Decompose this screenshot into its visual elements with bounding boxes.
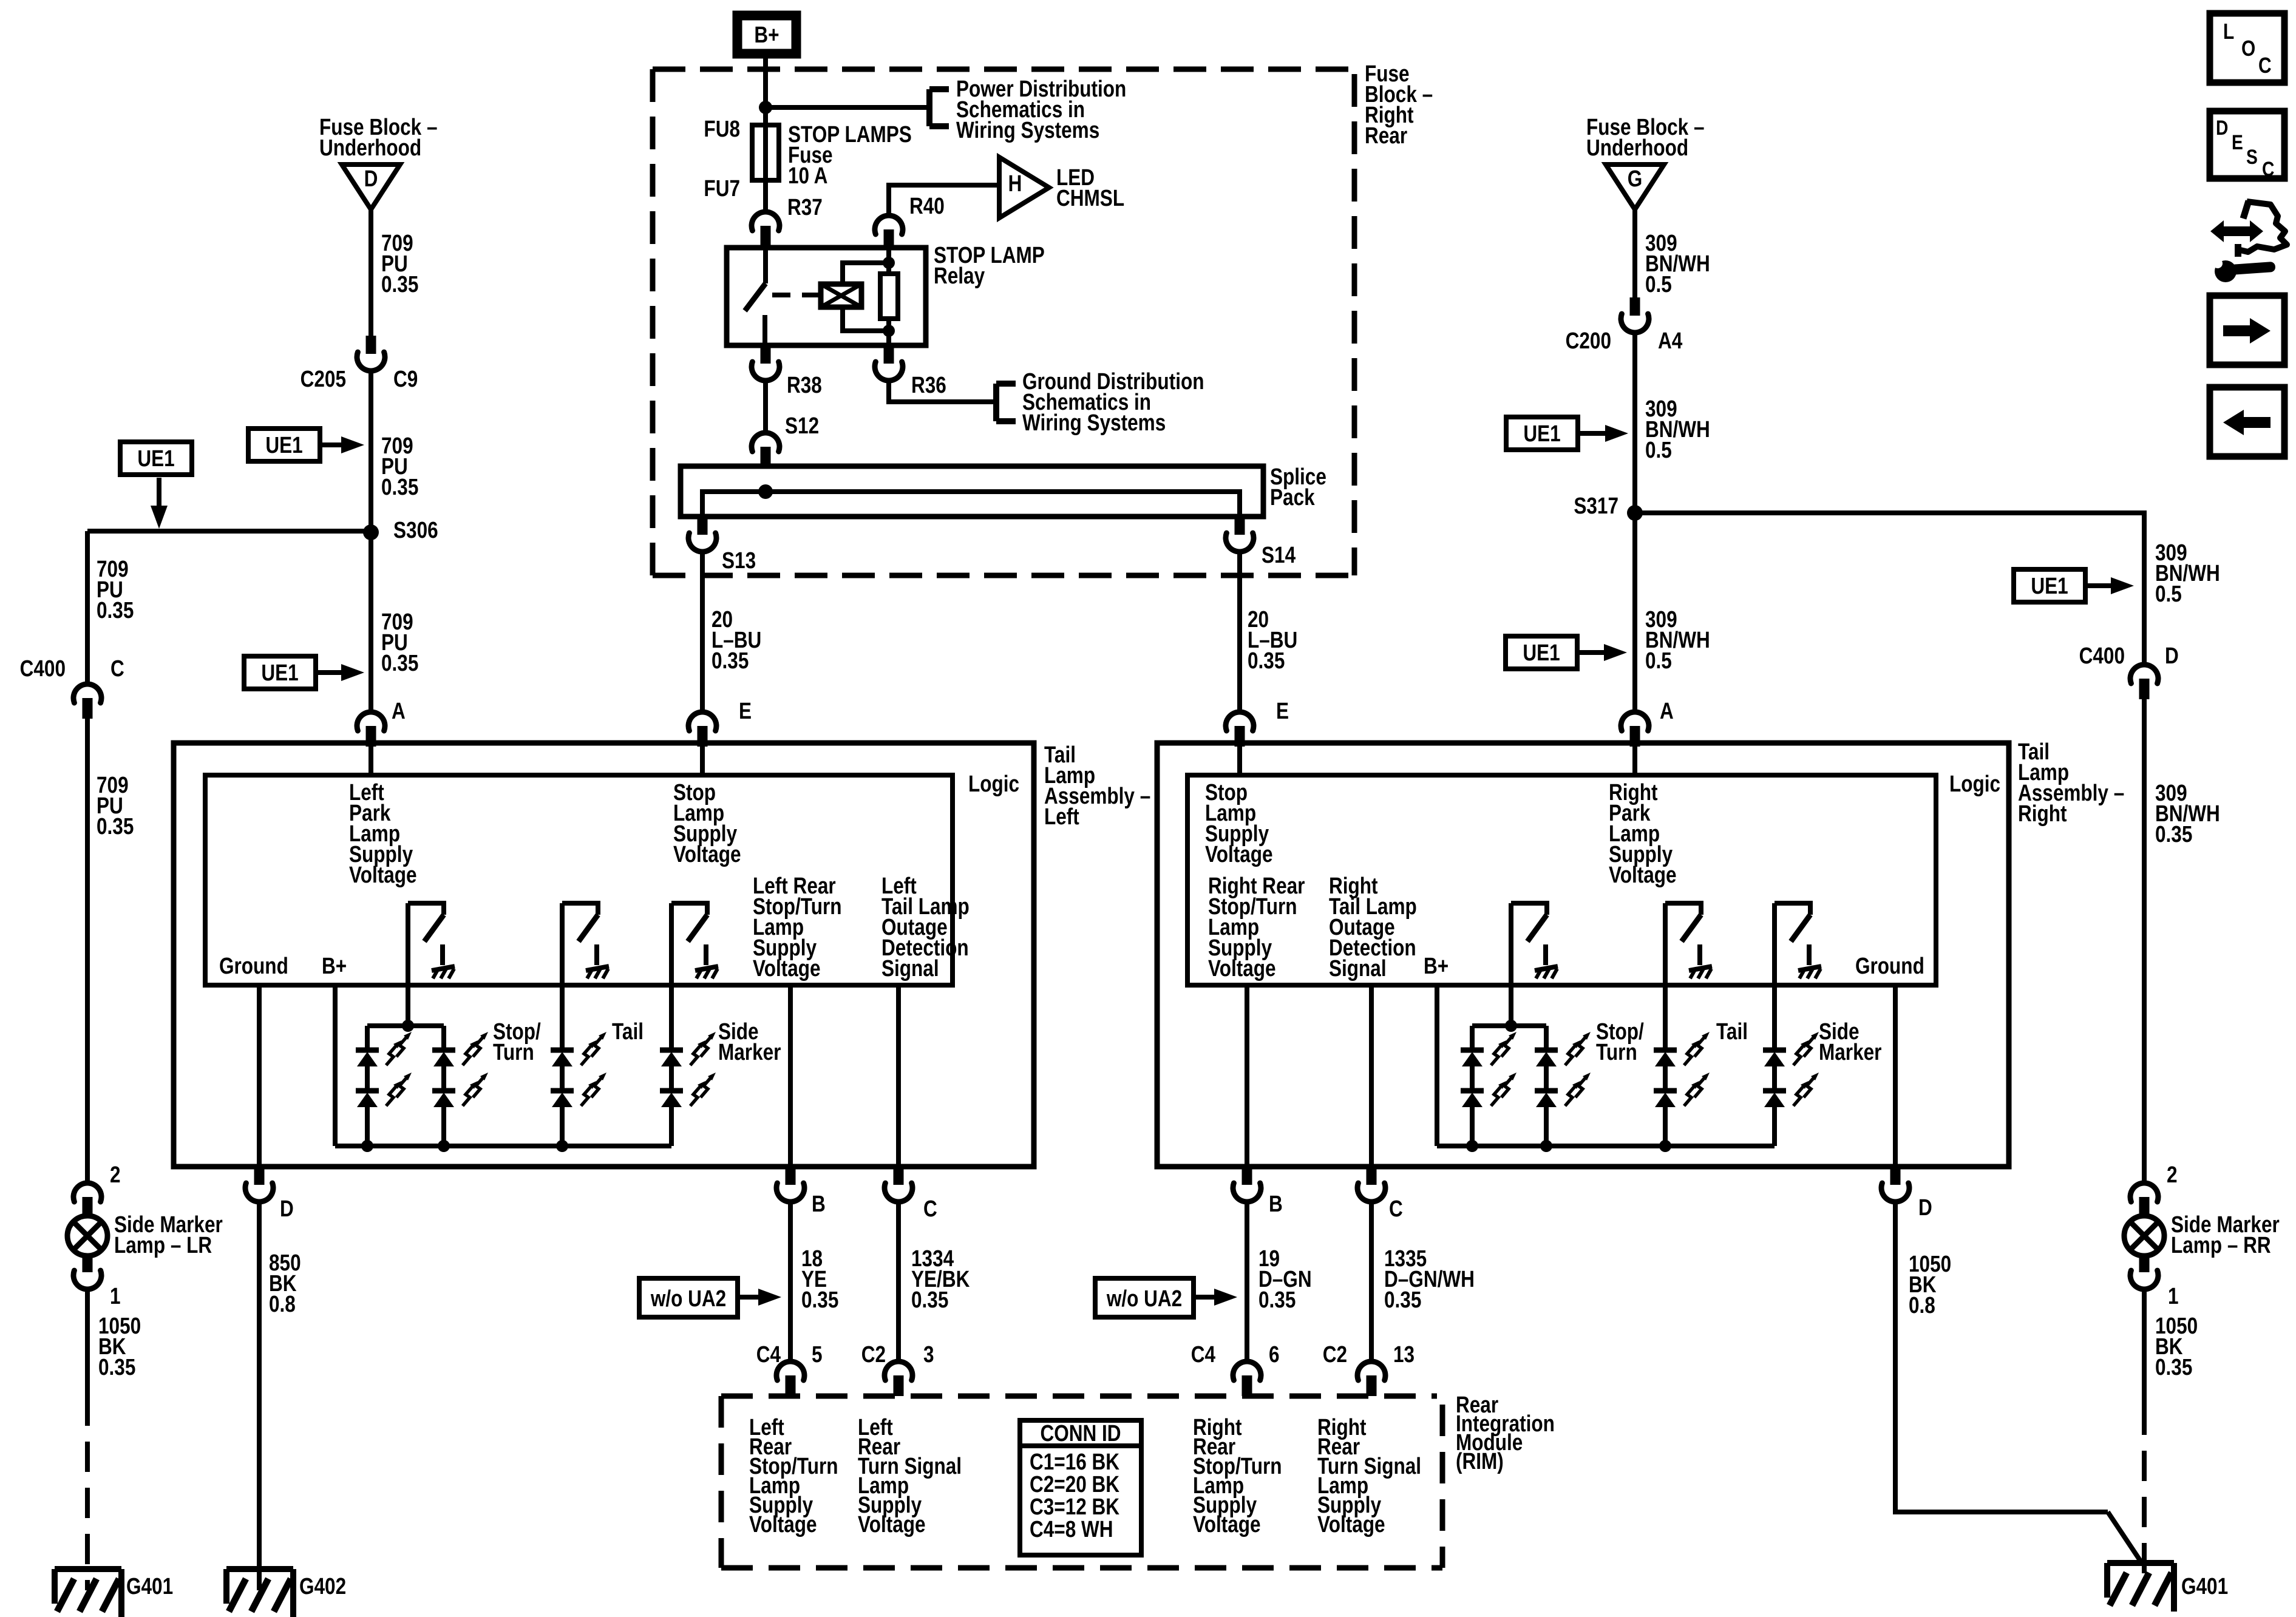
connector pin R38 xyxy=(761,345,771,364)
svg-text:S: S xyxy=(2246,146,2258,169)
arrow UE1 far right xyxy=(2085,583,2116,588)
svg-text:R37: R37 xyxy=(787,194,823,220)
wire R38 to S12 xyxy=(763,381,768,432)
svg-text:CHMSL: CHMSL xyxy=(1056,185,1124,211)
svg-text:R38: R38 xyxy=(787,372,822,398)
svg-text:S14: S14 xyxy=(1262,542,1296,568)
svg-text:D: D xyxy=(1918,1195,1932,1220)
wire B+ to fuse FU8 xyxy=(763,58,768,125)
svg-text:Ground: Ground xyxy=(1855,953,1924,978)
svg-text:C4: C4 xyxy=(756,1341,781,1367)
LED tail left 2 xyxy=(551,1088,574,1094)
LED bottom rail right xyxy=(1437,1144,1775,1148)
wire S14 to connector E right xyxy=(1237,552,1242,711)
wire switch2 left xyxy=(560,903,565,1050)
LED stop/turn left A1 xyxy=(356,1048,379,1053)
svg-text:C2: C2 xyxy=(861,1341,886,1367)
svg-text:Rear: Rear xyxy=(1365,123,1407,148)
wire led stringB left xyxy=(441,1066,446,1091)
LED side marker right 1 xyxy=(1763,1048,1786,1053)
svg-text:0.35: 0.35 xyxy=(381,474,418,500)
svg-text:G401: G401 xyxy=(126,1573,173,1599)
svg-text:B+: B+ xyxy=(754,22,779,47)
svg-text:Lamp – RR: Lamp – RR xyxy=(2171,1232,2271,1258)
svg-text:C: C xyxy=(1389,1196,1403,1221)
junction dot S306 xyxy=(363,524,379,540)
icon hand double arrow xyxy=(2210,220,2263,242)
svg-text:Voltage: Voltage xyxy=(749,1511,817,1537)
bracket ground distribution xyxy=(993,384,999,421)
option box UE1 right upper xyxy=(1506,417,1578,450)
wire pin A into logic left xyxy=(369,747,373,775)
svg-text:G: G xyxy=(1628,166,1643,191)
svg-text:0.35: 0.35 xyxy=(97,813,134,839)
svg-text:Voltage: Voltage xyxy=(1317,1511,1385,1537)
tail lamp assembly left outer box xyxy=(174,743,1034,1167)
buffer triangle H LED CHMSL xyxy=(999,157,1049,218)
svg-text:L: L xyxy=(2223,19,2234,44)
svg-text:Voltage: Voltage xyxy=(1208,955,1276,981)
svg-text:C: C xyxy=(923,1196,937,1221)
svg-text:(RIM): (RIM) xyxy=(1456,1448,1504,1474)
LED stop/turn right B1 xyxy=(1535,1048,1558,1053)
svg-text:UE1: UE1 xyxy=(261,660,298,685)
svg-text:Wiring Systems: Wiring Systems xyxy=(1022,410,1166,435)
option box UE1 at A left xyxy=(244,656,316,689)
LED side marker right 2 xyxy=(1763,1088,1786,1094)
wire C400 D to side marker RR xyxy=(2142,699,2147,1182)
wire B right to RIM xyxy=(1245,1202,1249,1360)
connector RIM C4-6 xyxy=(1233,1361,1261,1380)
svg-text:UE1: UE1 xyxy=(1523,640,1560,665)
option box UE1 far right xyxy=(2014,569,2085,602)
svg-text:1: 1 xyxy=(2168,1283,2179,1309)
svg-text:D: D xyxy=(2216,117,2228,140)
connector pin R40 xyxy=(875,215,903,234)
svg-text:w/o UA2: w/o UA2 xyxy=(650,1286,726,1311)
svg-text:O: O xyxy=(2241,36,2255,61)
wire pin B right xyxy=(1245,985,1249,1167)
connector pin A right assembly xyxy=(1621,712,1649,731)
svg-text:B+: B+ xyxy=(322,953,347,978)
bulb side marker lamp RR xyxy=(2124,1216,2164,1256)
svg-text:S306: S306 xyxy=(393,517,438,543)
relay actuator dashed link xyxy=(772,293,821,297)
svg-text:Tail: Tail xyxy=(1716,1019,1748,1044)
svg-text:Voltage: Voltage xyxy=(753,955,821,981)
svg-text:E: E xyxy=(1276,698,1289,724)
arrow UE1 to wire A left xyxy=(316,670,346,675)
svg-text:Underhood: Underhood xyxy=(1586,135,1688,160)
svg-text:0.35: 0.35 xyxy=(98,1354,135,1380)
connector C400 C xyxy=(73,684,101,703)
svg-text:CONN ID: CONN ID xyxy=(1040,1420,1121,1446)
driver switch side marker left xyxy=(671,903,707,915)
svg-text:Ground: Ground xyxy=(219,953,288,978)
wire fuse to R37 xyxy=(763,180,768,211)
connector pin D right assembly xyxy=(1890,1167,1901,1185)
connector RIM C2-3 xyxy=(885,1361,912,1380)
svg-text:0.35: 0.35 xyxy=(801,1287,838,1312)
connector C205/C9 xyxy=(366,336,376,354)
wire ground pin D right xyxy=(1893,985,1898,1167)
driver switch tail left xyxy=(562,903,598,915)
wire led stringA right xyxy=(1470,1066,1475,1091)
wire pin E into logic left xyxy=(700,747,705,775)
connector pin 1 side marker RR xyxy=(2139,1254,2150,1272)
stop/turn tee left xyxy=(367,1023,444,1028)
svg-text:0.35: 0.35 xyxy=(2155,821,2192,847)
wire switch3 left xyxy=(669,903,674,1050)
svg-text:C: C xyxy=(110,656,124,681)
svg-text:S317: S317 xyxy=(1574,493,1618,518)
LED tail right 1 xyxy=(1654,1048,1677,1053)
wire B+ pin left xyxy=(333,985,338,1146)
wire led side marker left xyxy=(669,1066,674,1091)
LED stop/turn right B2 xyxy=(1535,1088,1558,1094)
arrow UE1 to wire A right xyxy=(1577,650,1609,655)
svg-text:Tail: Tail xyxy=(612,1019,644,1044)
connector pin 2 side marker LR xyxy=(73,1183,101,1202)
svg-text:Turn: Turn xyxy=(1596,1039,1637,1065)
icon box arrow right xyxy=(2210,296,2284,365)
wire switch1 left xyxy=(406,903,410,1026)
logic box right xyxy=(1187,775,1936,985)
svg-text:A4: A4 xyxy=(1658,328,1683,353)
svg-text:S13: S13 xyxy=(722,547,756,573)
svg-text:1: 1 xyxy=(110,1283,121,1309)
connector pin 2 side marker RR xyxy=(2130,1183,2158,1202)
svg-text:Signal: Signal xyxy=(881,955,939,981)
wire C9 to S306 xyxy=(369,371,373,532)
relay coil wiring xyxy=(843,263,889,284)
svg-text:C: C xyxy=(2258,53,2272,78)
ground G401 right xyxy=(2107,1560,2174,1566)
svg-text:Marker: Marker xyxy=(718,1039,781,1065)
wire C right to RIM xyxy=(1369,1202,1374,1360)
svg-text:0.5: 0.5 xyxy=(1645,648,1672,673)
LED side marker left 1 xyxy=(660,1048,683,1053)
fuse FU8/FU7 STOP LAMPS 10A xyxy=(752,125,779,180)
connector pin C right assembly xyxy=(1367,1167,1377,1185)
connector C400 D xyxy=(2130,665,2158,683)
svg-text:S12: S12 xyxy=(785,413,819,438)
svg-text:0.8: 0.8 xyxy=(269,1291,296,1317)
wire switch2 right xyxy=(1663,903,1668,1050)
svg-text:FU8: FU8 xyxy=(704,116,740,141)
connector pin R36 xyxy=(884,345,894,364)
triangle connector G fuse block xyxy=(1606,164,1664,209)
junction dot S317 xyxy=(1627,505,1643,521)
svg-text:Relay: Relay xyxy=(934,263,985,288)
LED tail left 1 xyxy=(551,1048,574,1053)
relay resistor xyxy=(880,274,898,319)
option box w/o UA2 left xyxy=(639,1278,738,1317)
svg-text:13: 13 xyxy=(1393,1341,1415,1367)
relay STOP LAMP box xyxy=(727,248,926,345)
power feed B+ box xyxy=(733,11,801,58)
driver switch tail right xyxy=(1665,903,1701,915)
connector RIM C2-13 xyxy=(1357,1361,1385,1380)
svg-text:R40: R40 xyxy=(909,193,945,219)
svg-text:0.5: 0.5 xyxy=(2155,581,2182,606)
driver switch side marker right xyxy=(1775,903,1810,915)
svg-text:10 A: 10 A xyxy=(788,163,827,188)
svg-text:Left: Left xyxy=(1044,804,1079,829)
arrow UE1 down to wire xyxy=(157,478,161,510)
svg-text:0.35: 0.35 xyxy=(2155,1354,2192,1380)
svg-text:0.35: 0.35 xyxy=(97,597,134,623)
wire led tail right xyxy=(1663,1066,1668,1091)
svg-text:E: E xyxy=(739,698,752,724)
arrow UE1 to wire 709 xyxy=(320,442,346,447)
svg-text:C400: C400 xyxy=(2079,643,2125,668)
logic box left xyxy=(205,775,953,985)
svg-text:C: C xyxy=(2262,158,2274,181)
svg-text:A: A xyxy=(392,698,406,724)
connector pin D left assembly xyxy=(254,1167,265,1185)
svg-text:0.8: 0.8 xyxy=(1909,1292,1935,1318)
wire S317 to connector A right xyxy=(1632,513,1637,711)
svg-text:C400: C400 xyxy=(20,656,66,681)
svg-text:Voltage: Voltage xyxy=(1609,862,1677,887)
wire C left to RIM xyxy=(896,1202,901,1360)
svg-text:D: D xyxy=(280,1196,294,1221)
junction dot power feed xyxy=(759,101,772,114)
option box UE1 upper-left xyxy=(120,442,192,475)
svg-text:C4=8 WH: C4=8 WH xyxy=(1030,1516,1113,1542)
svg-text:G401: G401 xyxy=(2181,1573,2228,1599)
icon box DESC xyxy=(2210,111,2284,178)
relay junction dot bottom xyxy=(883,325,895,337)
connector pin C left assembly xyxy=(894,1167,904,1185)
svg-text:Marker: Marker xyxy=(1819,1039,1882,1065)
wire C400 to side marker LR xyxy=(85,719,90,1182)
LED bottom rail left xyxy=(335,1144,671,1148)
connector C200/A4 xyxy=(1630,297,1640,316)
svg-text:C4: C4 xyxy=(1191,1341,1216,1367)
bracket power distribution xyxy=(926,89,932,126)
svg-text:H: H xyxy=(1008,171,1022,196)
svg-text:0.5: 0.5 xyxy=(1645,437,1672,463)
wire G to C200 xyxy=(1632,209,1637,297)
svg-text:C2: C2 xyxy=(1323,1341,1347,1367)
svg-text:3: 3 xyxy=(923,1341,934,1367)
svg-text:0.35: 0.35 xyxy=(712,648,749,673)
svg-text:Signal: Signal xyxy=(1329,955,1387,981)
wire switch1 right xyxy=(1509,903,1513,1026)
CONN ID table xyxy=(1020,1420,1141,1555)
arrow w/o UA2 right xyxy=(1194,1295,1219,1300)
LED stop/turn left B2 xyxy=(432,1088,455,1094)
svg-text:G402: G402 xyxy=(299,1573,346,1599)
ground G402 xyxy=(226,1566,293,1572)
svg-text:0.5: 0.5 xyxy=(1645,271,1672,297)
connector pin B left assembly xyxy=(786,1167,796,1185)
relay junction dot top xyxy=(883,257,895,269)
wire B left to RIM xyxy=(788,1202,793,1360)
svg-text:B+: B+ xyxy=(1424,953,1449,978)
wire side marker RR to ground xyxy=(2142,1289,2147,1405)
wire pin B left xyxy=(788,985,793,1167)
wire switch3 right xyxy=(1772,903,1777,1050)
driver switch stop/turn left xyxy=(408,903,444,915)
svg-text:B: B xyxy=(812,1191,826,1216)
wire left branch to C400 xyxy=(85,531,90,683)
connector pin 1 side marker LR xyxy=(83,1254,93,1272)
wire B+ pin right xyxy=(1435,985,1439,1146)
svg-text:Wiring Systems: Wiring Systems xyxy=(956,117,1099,143)
wire led stringB right xyxy=(1544,1066,1549,1091)
wire R36 to ground note xyxy=(889,381,996,402)
wire D to G402 xyxy=(257,1202,262,1590)
relay coil xyxy=(821,284,861,307)
connector pin E right assembly xyxy=(1226,712,1254,731)
wire R40 to LED CHMSL xyxy=(889,185,999,214)
svg-text:B: B xyxy=(1269,1191,1283,1216)
svg-text:0.35: 0.35 xyxy=(1258,1287,1296,1312)
arrow w/o UA2 left xyxy=(738,1295,763,1300)
ground G401 left xyxy=(55,1566,121,1572)
wire pin C right xyxy=(1369,985,1374,1167)
wire D to C205 xyxy=(369,209,373,336)
svg-text:2: 2 xyxy=(2167,1162,2178,1187)
connector pin R37 xyxy=(752,212,779,231)
svg-text:Turn: Turn xyxy=(493,1039,534,1065)
svg-text:UE1: UE1 xyxy=(1523,421,1560,446)
svg-text:6: 6 xyxy=(1269,1341,1280,1367)
svg-text:Voltage: Voltage xyxy=(1193,1511,1261,1537)
connector RIM C4-5 xyxy=(776,1361,804,1380)
wire ground pin D left xyxy=(257,985,262,1167)
arrow UE1 right upper xyxy=(1578,431,1610,436)
LED stop/turn left A2 xyxy=(356,1088,379,1094)
LED stop/turn right A1 xyxy=(1461,1048,1484,1053)
bulb side marker lamp LR xyxy=(67,1216,107,1256)
wire to power distribution note xyxy=(766,105,929,110)
svg-text:A: A xyxy=(1660,698,1674,724)
svg-text:Right: Right xyxy=(2018,801,2067,826)
svg-text:Logic: Logic xyxy=(968,771,1019,796)
svg-text:w/o UA2: w/o UA2 xyxy=(1106,1286,1182,1311)
splice pack bus bar xyxy=(702,492,1240,517)
svg-text:0.35: 0.35 xyxy=(911,1287,948,1312)
svg-text:0.35: 0.35 xyxy=(381,271,418,297)
svg-text:Voltage: Voltage xyxy=(349,862,417,887)
svg-text:C9: C9 xyxy=(393,366,418,392)
svg-text:Logic: Logic xyxy=(1949,771,2000,796)
LED stop/turn left B1 xyxy=(432,1048,455,1053)
option box UE1 mid-left xyxy=(248,429,320,461)
svg-text:Voltage: Voltage xyxy=(858,1511,926,1537)
connector pin B right assembly xyxy=(1242,1167,1252,1185)
svg-text:D: D xyxy=(364,166,378,191)
tail lamp assembly right outer box xyxy=(1157,743,2009,1167)
stop/turn tee right xyxy=(1472,1023,1546,1028)
icon hand outline xyxy=(2238,202,2287,252)
svg-text:D: D xyxy=(2165,643,2179,668)
svg-text:Underhood: Underhood xyxy=(319,135,421,160)
connector splice S13 xyxy=(698,517,708,535)
relay resistor wire xyxy=(886,248,891,274)
wire pin E into logic right xyxy=(1237,747,1242,775)
connector splice S14 xyxy=(1235,517,1245,535)
svg-text:Voltage: Voltage xyxy=(1205,841,1273,867)
triangle connector D fuse block xyxy=(342,164,400,209)
relay switch contact xyxy=(763,248,768,283)
svg-text:UE1: UE1 xyxy=(265,432,302,458)
wire led tail left xyxy=(560,1066,565,1091)
svg-text:C205: C205 xyxy=(301,366,346,392)
option box UE1 at A right xyxy=(1506,636,1577,669)
svg-text:0.35: 0.35 xyxy=(381,650,418,676)
LED stop/turn right A2 xyxy=(1461,1088,1484,1094)
wire D right to G401 xyxy=(1895,1202,2108,1512)
svg-text:Pack: Pack xyxy=(1270,484,1315,510)
icon box LOC xyxy=(2210,13,2284,83)
wire led stringA left xyxy=(365,1066,370,1091)
svg-text:5: 5 xyxy=(812,1341,823,1367)
wire pin A into logic right xyxy=(1632,747,1637,775)
wire S306 to connector A left xyxy=(369,532,373,711)
LED side marker left 2 xyxy=(660,1088,683,1094)
svg-text:0.35: 0.35 xyxy=(1248,648,1285,673)
dashed box Fuse Block - Right Rear xyxy=(653,67,1354,72)
option box w/o UA2 right xyxy=(1095,1278,1194,1317)
svg-text:E: E xyxy=(2232,131,2243,154)
wire S317 to right branch xyxy=(1635,513,2144,663)
icon wrench xyxy=(2215,260,2237,282)
svg-text:UE1: UE1 xyxy=(2031,573,2068,598)
driver switch stop/turn right xyxy=(1511,903,1547,915)
connector pin E left assembly xyxy=(688,712,716,731)
svg-text:Voltage: Voltage xyxy=(673,841,741,867)
connector pin A left assembly xyxy=(357,712,385,731)
wire A4 to S317 xyxy=(1632,333,1637,513)
LED tail right 2 xyxy=(1654,1088,1677,1094)
svg-text:0.35: 0.35 xyxy=(1384,1287,1421,1312)
svg-text:2: 2 xyxy=(110,1162,121,1187)
wire led side marker right xyxy=(1772,1066,1777,1091)
wire pin C left xyxy=(896,985,901,1167)
svg-text:C200: C200 xyxy=(1566,328,1611,353)
svg-text:UE1: UE1 xyxy=(137,446,174,471)
svg-text:FU7: FU7 xyxy=(704,175,740,201)
svg-text:R36: R36 xyxy=(911,372,946,398)
junction dot S12 bus xyxy=(758,484,773,499)
wire S13 to connector E left xyxy=(700,552,705,711)
connector splice S12 xyxy=(752,433,779,452)
wire side marker LR to ground xyxy=(85,1289,90,1395)
wire S306 to left branch xyxy=(87,529,371,534)
icon box arrow left xyxy=(2210,387,2284,456)
splice pack box xyxy=(681,466,1263,517)
svg-text:Lamp – LR: Lamp – LR xyxy=(114,1232,212,1258)
dashed box Rear Integration Module xyxy=(721,1394,1437,1399)
